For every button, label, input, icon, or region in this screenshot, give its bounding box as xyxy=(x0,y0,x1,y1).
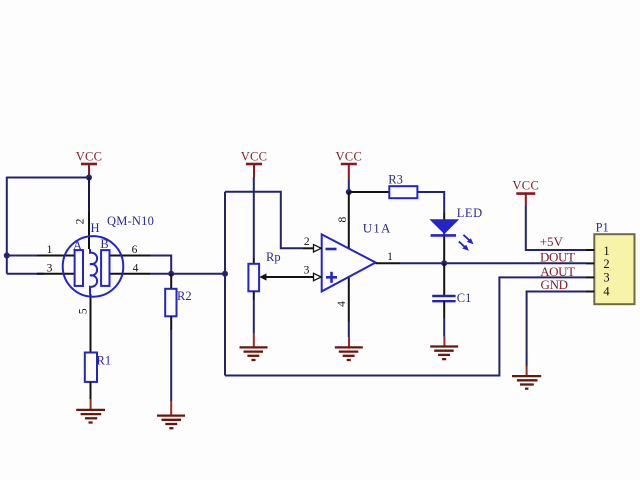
svg-text:3: 3 xyxy=(603,270,609,284)
wire VCC to P1 pin1 (+5V net) xyxy=(526,206,586,250)
svg-text:U1A: U1A xyxy=(363,221,392,236)
light arrow 2 xyxy=(459,241,466,248)
svg-text:C1: C1 xyxy=(457,291,472,305)
svg-text:R1: R1 xyxy=(97,354,112,368)
node junction under VCC top-left xyxy=(86,175,92,181)
op-amp U1A body xyxy=(322,221,392,292)
ground below P1 xyxy=(512,366,541,389)
ground below op-amp pin 4 xyxy=(335,337,363,360)
node junction LED/C1 on output xyxy=(441,260,447,266)
svg-text:P1: P1 xyxy=(596,221,609,235)
wire pin1 row xyxy=(7,255,44,257)
sensor QM-N10 body: circle xyxy=(63,236,124,297)
svg-text:Rp: Rp xyxy=(266,250,281,264)
connector P1 xyxy=(586,221,635,305)
svg-text:2: 2 xyxy=(75,218,87,224)
svg-text:VCC: VCC xyxy=(512,179,539,193)
potentiometer Rp xyxy=(248,250,303,291)
op-amp U1A pin 4 xyxy=(348,277,350,322)
svg-text:B: B xyxy=(100,237,108,251)
sensor pin 3 (left) xyxy=(37,273,75,275)
svg-text:GND: GND xyxy=(541,277,568,292)
svg-text:VCC: VCC xyxy=(241,150,268,164)
wire bottom rail (AOUT net) xyxy=(225,277,586,375)
svg-text:R3: R3 xyxy=(388,173,403,187)
wire R2 to ground xyxy=(170,316,172,330)
wire Rp to ground xyxy=(253,291,255,300)
svg-text:5: 5 xyxy=(77,308,89,314)
power VCC symbol (op-amp) xyxy=(335,150,362,181)
pin 3 input arrow xyxy=(303,276,314,278)
svg-text:2: 2 xyxy=(304,236,310,248)
pin 1 output xyxy=(376,262,400,264)
svg-text:3: 3 xyxy=(47,263,53,275)
pin 2 input arrow xyxy=(303,247,314,249)
wire VCC down toward sensor pin 2 xyxy=(88,178,90,213)
electrode B plate xyxy=(101,250,109,286)
wire VCC net top-left horizontal xyxy=(7,177,89,179)
svg-text:DOUT: DOUT xyxy=(540,249,575,264)
wire far-left vertical VCC to pins 1/3 xyxy=(6,177,8,274)
LED D? xyxy=(431,206,483,251)
svg-text:4: 4 xyxy=(603,284,610,298)
plus input mark xyxy=(326,276,337,279)
electrode A plate xyxy=(75,250,83,286)
svg-text:1: 1 xyxy=(47,244,53,256)
wire output row to P1 pin2 (DOUT net) xyxy=(400,262,586,264)
ground below R1 xyxy=(76,399,105,423)
svg-text:VCC: VCC xyxy=(76,150,103,164)
P1 pin 2 xyxy=(586,262,594,264)
sensor U? QM-N10 pin 2 (top) xyxy=(88,212,90,249)
resistor R1 xyxy=(85,353,111,382)
svg-text:H: H xyxy=(90,221,99,235)
wire pin3 row xyxy=(7,273,44,275)
minus input mark xyxy=(326,248,337,251)
svg-text:4: 4 xyxy=(133,263,139,275)
power VCC symbol (P1) xyxy=(512,179,539,207)
wire R1 to ground xyxy=(90,382,92,399)
heater coil xyxy=(90,249,97,295)
wire op-amp VCC to R3 xyxy=(349,191,390,193)
op-amp U1A pin 8 xyxy=(348,192,350,250)
power VCC symbol (Rp) xyxy=(241,150,268,178)
svg-text:+5V: +5V xyxy=(540,234,564,249)
svg-text:VCC: VCC xyxy=(335,150,362,164)
svg-text:R2: R2 xyxy=(177,289,192,303)
wire VCC to Rp xyxy=(253,177,255,258)
P1 pin 3 xyxy=(586,276,594,278)
wire branch to op-amp pin 2 xyxy=(225,192,303,249)
ground below R2 xyxy=(157,401,185,428)
P1 pin 1 xyxy=(586,249,594,251)
svg-text:1: 1 xyxy=(603,244,609,258)
sensor pin 5 (bottom) xyxy=(90,294,92,353)
sensor pin 6 (right) xyxy=(109,255,150,257)
svg-text:1: 1 xyxy=(387,251,393,263)
wiper arrow xyxy=(264,276,303,278)
wire pin4 row to left vertical xyxy=(150,273,225,275)
node junction far-left pin1 xyxy=(4,253,10,259)
node junction left vertical / pin4 xyxy=(222,271,228,277)
svg-text:2: 2 xyxy=(603,257,609,271)
sensor pin 1 (left) xyxy=(37,255,75,257)
P1 pin 4 xyxy=(586,291,594,293)
wire C1 to ground xyxy=(443,301,445,318)
svg-text:3: 3 xyxy=(304,265,310,277)
svg-text:4: 4 xyxy=(336,301,348,307)
wire GND net from P1 pin4 xyxy=(527,292,586,367)
node junction op-amp VCC xyxy=(346,189,352,195)
power VCC symbol top-left xyxy=(76,150,103,178)
sensor pin 4 (right) xyxy=(109,273,150,275)
svg-text:A: A xyxy=(73,239,82,253)
ground below Rp xyxy=(240,333,268,360)
light arrow 1 xyxy=(463,235,470,242)
svg-text:8: 8 xyxy=(337,216,349,222)
node junction R2 top xyxy=(168,271,174,277)
svg-text:LED: LED xyxy=(457,206,483,220)
resistor R3 xyxy=(388,173,417,199)
resistor R2 xyxy=(165,289,191,317)
svg-text:6: 6 xyxy=(132,244,138,256)
wire left vertical sensor-output net xyxy=(224,192,226,376)
wire R3 to LED xyxy=(417,192,444,213)
wire pin6 drop to pin4 row xyxy=(150,256,171,274)
capacitor C1 xyxy=(432,263,471,305)
ground below C1 xyxy=(430,337,458,359)
wire R2 top stub xyxy=(170,274,172,289)
svg-text:QM-N10: QM-N10 xyxy=(107,214,154,228)
